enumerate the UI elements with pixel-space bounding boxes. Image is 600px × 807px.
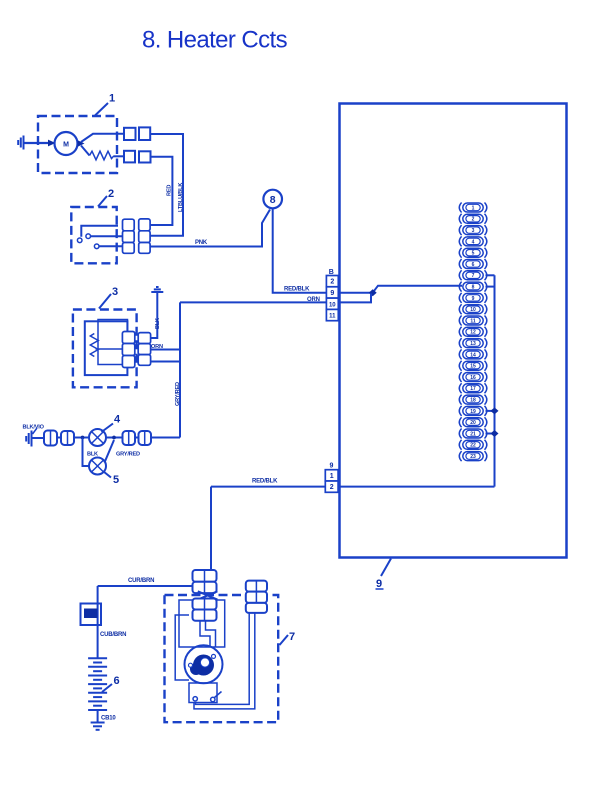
svg-text:GRY/RED: GRY/RED xyxy=(175,382,181,406)
connector pin L1 xyxy=(44,431,57,446)
heater blower motor box 1 xyxy=(38,116,117,173)
label 3 xyxy=(99,286,118,309)
svg-text:CB10: CB10 xyxy=(101,716,116,722)
switch S1 internal wiring xyxy=(77,226,122,249)
connector B label xyxy=(329,269,334,276)
connector pins of motor 1 xyxy=(124,127,151,162)
svg-text:2: 2 xyxy=(330,484,334,491)
svg-text:7: 7 xyxy=(289,631,295,643)
connector of resistor unit 3 xyxy=(122,332,150,368)
svg-text:14: 14 xyxy=(470,352,476,358)
in-line connector 8 xyxy=(263,190,282,209)
terminal 5 xyxy=(459,248,487,258)
pump brush S2 xyxy=(212,654,216,658)
svg-text:2: 2 xyxy=(330,279,334,286)
wire BLK down to lamp 5 xyxy=(83,438,90,467)
pump motor M2 xyxy=(185,645,223,683)
junction J1 xyxy=(81,436,85,440)
wire to lamp 4 xyxy=(57,437,89,439)
label 1 xyxy=(95,93,115,116)
svg-text:5: 5 xyxy=(113,474,119,486)
pump switch plate xyxy=(189,683,217,703)
svg-text:3: 3 xyxy=(112,286,118,298)
wire down to pump connector xyxy=(210,487,212,571)
label PNK xyxy=(195,240,208,246)
svg-text:CUB/BRN: CUB/BRN xyxy=(100,632,126,638)
label GRY/RED xyxy=(175,382,181,406)
ground G4 xyxy=(91,723,105,730)
resistor R1 xyxy=(90,151,115,160)
svg-text:PNK: PNK xyxy=(195,240,208,246)
wire RED motor to switch xyxy=(150,157,172,225)
label ORN xyxy=(307,297,320,303)
right connector stack xyxy=(246,581,267,613)
svg-text:2: 2 xyxy=(108,188,114,200)
svg-text:BLK/VIO: BLK/VIO xyxy=(23,425,45,431)
terminal 18 xyxy=(459,395,487,405)
connector B pin 10 xyxy=(326,298,338,309)
svg-text:9: 9 xyxy=(472,296,475,302)
wire GRY/RED to lamps xyxy=(135,437,180,439)
svg-text:11: 11 xyxy=(329,314,336,320)
connector B pin 2 xyxy=(326,276,338,287)
fuse F1 xyxy=(81,604,102,626)
svg-text:6: 6 xyxy=(472,262,475,268)
label RED xyxy=(166,185,172,196)
illumination lamp 5 xyxy=(89,458,106,475)
junction diamond D1 xyxy=(369,289,377,296)
terminal 10 xyxy=(459,304,487,314)
terminal 4 xyxy=(459,236,487,246)
terminal 14 xyxy=(459,349,487,359)
pump connector stack top xyxy=(193,570,217,593)
label 6 xyxy=(102,675,120,692)
terminal 13 xyxy=(459,338,487,348)
terminal 21 xyxy=(459,429,487,439)
wire pin 9 to terminal 8 xyxy=(338,286,462,293)
label BLK/VIO xyxy=(23,425,45,435)
label 2 xyxy=(98,188,114,207)
pump return wire run xyxy=(194,613,255,709)
terminal 9 xyxy=(459,293,487,303)
svg-text:CUR/BRN: CUR/BRN xyxy=(128,578,154,584)
pump connector stack lower xyxy=(193,599,217,621)
terminal 8 xyxy=(459,282,487,292)
wire CUR/BRN xyxy=(98,585,193,587)
wire terminal 7 to bus xyxy=(486,274,495,276)
svg-text:8: 8 xyxy=(472,285,475,291)
wire pin 10 riser xyxy=(338,294,371,303)
wire lamp 5 up to junction xyxy=(105,440,115,463)
pump switch contacts xyxy=(193,692,222,702)
svg-text:20: 20 xyxy=(470,420,476,426)
connector of switch 2 xyxy=(123,219,151,253)
wire terminal 21 to bus xyxy=(486,433,495,435)
pump wire duct xyxy=(200,621,216,647)
svg-text:16: 16 xyxy=(470,375,476,381)
node fork at motor output xyxy=(78,140,85,147)
svg-text:10: 10 xyxy=(470,307,476,313)
connector 9 pin 1 xyxy=(325,470,338,481)
connector B pin 9 xyxy=(326,287,338,298)
wire LTBLU/BLK motor to switch xyxy=(150,134,183,236)
label 5 xyxy=(104,472,120,487)
label BLK xyxy=(155,318,161,329)
svg-text:18: 18 xyxy=(470,398,476,404)
blower switch box 2 xyxy=(71,207,116,263)
label 4 xyxy=(102,414,122,433)
terminal 2 xyxy=(459,214,487,224)
wire motor to pin row1 xyxy=(81,134,124,142)
svg-text:RED/BLK: RED/BLK xyxy=(252,479,278,485)
terminal 23 xyxy=(459,451,487,461)
title xyxy=(142,27,288,54)
pump inner housing xyxy=(179,600,225,647)
illumination lamp 4 xyxy=(89,429,106,446)
svg-text:6: 6 xyxy=(114,675,120,687)
junction J2 xyxy=(112,436,116,440)
label CUB/BRN xyxy=(100,632,126,638)
wire RED/BLK connector 8 to fuse box pin 9 xyxy=(273,208,327,292)
svg-text:5: 5 xyxy=(472,251,475,257)
svg-text:9: 9 xyxy=(330,463,334,470)
wire terminal 8 to bus xyxy=(486,286,495,288)
terminal 17 xyxy=(459,383,487,393)
terminal 20 xyxy=(459,417,487,427)
resistor branch wire xyxy=(81,146,90,156)
terminal 7 xyxy=(459,270,487,280)
wire BLK ground to connector xyxy=(151,292,158,338)
svg-text:ORN: ORN xyxy=(307,297,320,303)
terminal 15 xyxy=(459,361,487,371)
label CB10 xyxy=(101,716,116,722)
svg-text:17: 17 xyxy=(470,386,476,392)
junction diamond D3 xyxy=(491,430,499,437)
label BLK at lamp xyxy=(87,452,98,458)
svg-text:9: 9 xyxy=(330,290,334,297)
pump brush S1 xyxy=(189,663,193,667)
fuse box 9 outline xyxy=(340,104,567,558)
label CUR/BRN xyxy=(128,578,154,584)
label RED/BLK xyxy=(284,287,310,293)
ground G2 above resistor unit xyxy=(151,287,163,292)
svg-text:7: 7 xyxy=(472,273,475,279)
svg-text:BLK: BLK xyxy=(155,318,161,329)
battery 6 xyxy=(88,658,107,710)
svg-text:21: 21 xyxy=(470,431,476,437)
connector pin L3 xyxy=(123,431,136,445)
wire RED/BLK pump feed xyxy=(211,486,495,488)
svg-text:11: 11 xyxy=(470,318,476,324)
terminal 6 xyxy=(459,259,487,269)
wire lamp 4 to connector xyxy=(106,437,123,439)
terminal 3 xyxy=(459,225,487,235)
label RED/BLK pump feed xyxy=(252,479,278,485)
svg-text:9: 9 xyxy=(376,578,382,590)
pump bracket xyxy=(175,615,189,680)
resistor unit inner housing xyxy=(85,320,128,376)
svg-text:ORN: ORN xyxy=(151,344,163,350)
wire GRY/RED stub xyxy=(151,361,180,363)
label 7 xyxy=(280,631,296,645)
svg-text:10: 10 xyxy=(329,302,336,308)
svg-text:4: 4 xyxy=(114,414,121,426)
svg-text:8: 8 xyxy=(270,194,276,206)
wire ORN stub xyxy=(151,349,180,351)
wire ground to connector xyxy=(32,437,45,439)
ground G1 xyxy=(18,136,23,150)
svg-text:22: 22 xyxy=(470,443,476,449)
connector pin L2 xyxy=(61,431,74,445)
svg-text:1: 1 xyxy=(330,473,334,480)
wire terminal 19 to bus xyxy=(486,410,495,412)
terminal 11 xyxy=(459,316,487,326)
terminal 22 xyxy=(459,440,487,450)
pump box 7 outline xyxy=(165,595,279,722)
svg-text:RED: RED xyxy=(166,185,172,196)
label 9 of big box xyxy=(376,559,392,591)
terminal 16 xyxy=(459,372,487,382)
connector B pin 11 xyxy=(326,309,338,320)
bus wire vertical xyxy=(494,275,496,486)
wire battery feed vertical xyxy=(97,586,99,659)
connector 9 pin 2 xyxy=(325,481,338,492)
resistor R2 xyxy=(90,334,122,357)
wire battery to ground xyxy=(97,710,99,723)
terminal 12 xyxy=(459,327,487,337)
connector pin L4 xyxy=(139,431,152,445)
svg-text:4: 4 xyxy=(472,239,475,245)
svg-text:15: 15 xyxy=(470,364,476,370)
wire GRY/RED vertical xyxy=(179,302,181,437)
svg-text:RED/BLK: RED/BLK xyxy=(284,287,310,293)
svg-text:13: 13 xyxy=(470,341,476,347)
wire ground to motor M1 xyxy=(24,140,56,147)
terminal 19 xyxy=(459,406,487,416)
connector mating bowtie xyxy=(198,591,218,599)
svg-text:2: 2 xyxy=(472,217,475,223)
svg-text:LTBLU/BLK: LTBLU/BLK xyxy=(178,183,184,212)
label GRY/RED at lamp xyxy=(116,452,140,458)
connector 9 label xyxy=(330,463,334,470)
svg-text:23: 23 xyxy=(470,454,476,460)
wire PNK switch to connector 8 xyxy=(150,210,270,247)
svg-text:3: 3 xyxy=(472,228,475,234)
ground G3 xyxy=(26,431,31,447)
svg-text:M: M xyxy=(63,142,69,149)
resistor unit box 3 xyxy=(73,310,137,388)
wire ORN to fuse box pin 10 xyxy=(180,301,326,303)
svg-text:1: 1 xyxy=(109,93,115,105)
svg-text:8. Heater Ccts: 8. Heater Ccts xyxy=(142,27,288,54)
svg-text:12: 12 xyxy=(470,330,476,336)
svg-text:GRY/RED: GRY/RED xyxy=(116,452,140,458)
wire resistor to pin row2 xyxy=(114,155,124,157)
svg-text:19: 19 xyxy=(470,409,476,415)
label LTBLU/BLK xyxy=(178,183,184,212)
label ORN at connector xyxy=(151,344,163,350)
motor M1 xyxy=(55,132,78,155)
junction diamond D2 xyxy=(491,407,499,414)
terminal 1 xyxy=(459,203,487,213)
svg-text:1: 1 xyxy=(472,205,475,211)
